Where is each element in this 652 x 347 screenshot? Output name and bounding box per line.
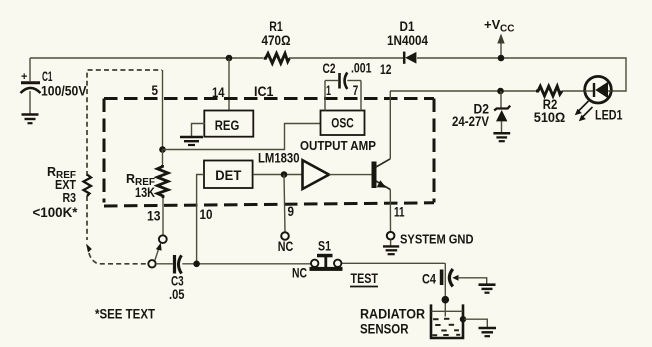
resistor R2 [536, 86, 562, 96]
svg-text:470Ω: 470Ω [262, 33, 291, 48]
detector DET [204, 161, 253, 189]
oscillator OSC [321, 111, 365, 136]
svg-text:R3: R3 [63, 190, 77, 205]
svg-text:+V: +V [484, 17, 501, 32]
svg-text:7: 7 [353, 83, 359, 98]
resistor R1 [264, 54, 290, 64]
svg-text:TEST: TEST [351, 271, 379, 286]
svg-text:S1: S1 [318, 239, 331, 254]
capacitor C1 [29, 58, 31, 81]
svg-text:10: 10 [200, 207, 213, 222]
wire pin 12 collector [389, 91, 391, 159]
svg-text:NC: NC [278, 239, 294, 254]
svg-text:LED1: LED1 [595, 108, 623, 123]
svg-text:R1: R1 [269, 19, 283, 34]
svg-text:OSC: OSC [331, 116, 354, 131]
op-amp output amplifier [303, 160, 330, 189]
svg-text:C4: C4 [422, 272, 436, 287]
svg-text:+: + [21, 71, 27, 83]
switch S1 pushbutton [311, 260, 318, 267]
node: junction pin14 / top rail [226, 55, 233, 62]
svg-text:*SEE TEXT: *SEE TEXT [95, 307, 156, 322]
wire DET left / pin 10 [197, 175, 204, 264]
LED1 [585, 76, 612, 103]
wire top rail right [417, 58, 626, 91]
resistor RREF 13K [162, 150, 164, 166]
wire pin 5 [162, 70, 164, 150]
svg-text:SENSOR: SENSOR [360, 322, 409, 337]
wire junction to OSC [163, 124, 321, 150]
bottom rail wires [156, 263, 173, 265]
node: junction C4/sensor [442, 296, 450, 304]
capacitor C4 [440, 270, 444, 286]
svg-text:13K: 13K [135, 185, 155, 200]
node: open terminal on bottom rail [148, 260, 155, 267]
svg-text:.05: .05 [169, 287, 185, 302]
svg-text:1N4004: 1N4004 [387, 33, 428, 48]
svg-text:1: 1 [326, 83, 331, 98]
ground (C1) [22, 115, 39, 124]
svg-text:C2: C2 [323, 61, 336, 76]
ground SYSTEM GND [383, 246, 399, 254]
wire REG to ground [192, 124, 206, 137]
ground (D2) [493, 133, 510, 141]
capacitor C3 [173, 255, 176, 274]
transistor Q1 [372, 162, 377, 189]
node: open terminal pin13 [159, 235, 167, 243]
node: junction pin5/RREF [159, 146, 166, 153]
+Vcc terminal [500, 41, 502, 58]
wire pin 7 [360, 81, 362, 111]
voltage regulator REG [204, 111, 253, 137]
svg-text:.001: .001 [351, 61, 372, 76]
svg-text:REG: REG [215, 118, 240, 133]
svg-text:IC1: IC1 [254, 84, 274, 99]
node: junction +Vcc / top rail [498, 55, 505, 62]
wire DET to op-amp [253, 174, 302, 176]
svg-text:NC: NC [292, 266, 307, 281]
ground (REG) [180, 137, 203, 145]
zener diode D2 [494, 106, 510, 111]
wire pin 14 to REG [228, 58, 230, 111]
node: junction pin9 [281, 171, 288, 178]
svg-text:D1: D1 [400, 19, 415, 34]
RREF EXT dashed box [87, 70, 162, 264]
svg-text:12: 12 [380, 62, 392, 77]
node: junction D2 [497, 88, 504, 95]
resistor R3 ext (zigzag on dashed line) [84, 175, 92, 197]
radiator sensor tank [431, 304, 463, 338]
node: open terminal pin9 NC [281, 232, 289, 240]
wire second rail [390, 90, 536, 92]
node: junction tank right [460, 316, 466, 322]
svg-text:<100K*: <100K* [33, 205, 79, 220]
svg-text:13: 13 [147, 209, 161, 224]
capacitor C2 [338, 73, 341, 89]
wire to system gnd [390, 240, 392, 246]
svg-text:11: 11 [394, 205, 405, 220]
svg-text:100/50V: 100/50V [41, 84, 87, 99]
svg-text:5: 5 [152, 83, 159, 98]
ground (C4) [479, 285, 496, 293]
switch arm pin13 to bottom rail [155, 245, 160, 261]
wire top rail mid [289, 57, 403, 59]
ground (sensor) [479, 328, 497, 336]
wire op-amp to Q base [329, 174, 373, 176]
wire tank to ground [464, 319, 487, 327]
svg-text:510Ω: 510Ω [534, 110, 566, 125]
svg-text:LM1830: LM1830 [258, 151, 300, 166]
wire pin 9 [284, 175, 285, 233]
svg-text:OUTPUT AMP: OUTPUT AMP [300, 138, 376, 153]
wire C2 loop [325, 80, 338, 82]
svg-text:C1: C1 [42, 69, 53, 84]
wire top rail [30, 57, 263, 59]
svg-text:CC: CC [500, 24, 514, 35]
svg-text:DET: DET [215, 168, 242, 183]
svg-text:9: 9 [288, 204, 295, 219]
svg-text:SYSTEM GND: SYSTEM GND [400, 232, 474, 247]
wire pin 11 emitter [389, 190, 391, 232]
LED light arrows [578, 101, 589, 112]
arrow on dashed path [86, 244, 92, 253]
IC1 boundary dashed box [104, 99, 434, 207]
wire pin 1 [324, 81, 326, 111]
diode D1 [403, 52, 406, 64]
node: open terminal pin11 [387, 232, 395, 240]
svg-text:RADIATOR: RADIATOR [360, 307, 425, 322]
node: junction pin10 / C3 [193, 261, 200, 268]
svg-text:24-27V: 24-27V [452, 114, 489, 129]
